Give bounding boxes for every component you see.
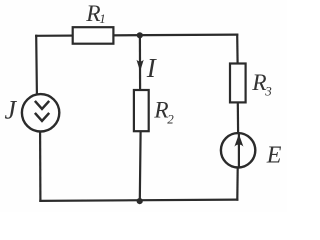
svg-text:J: J (5, 96, 18, 125)
wire right middle (237, 102, 240, 132)
node top junction (137, 32, 143, 38)
svg-text:I: I (146, 53, 158, 83)
wire right upper (236, 35, 239, 64)
svg-text:3: 3 (264, 84, 272, 99)
svg-text:E: E (266, 143, 282, 169)
wire left lower (39, 133, 42, 201)
node bottom junction (137, 198, 143, 204)
svg-text:1: 1 (99, 11, 106, 26)
resistor R2 (134, 90, 149, 131)
source E (221, 133, 255, 167)
wire bottom (40, 200, 237, 201)
current arrow I head (137, 60, 144, 72)
resistor R1 (73, 27, 114, 44)
resistor R3 (230, 64, 246, 103)
current source J chevron upper (35, 101, 49, 109)
wire middle lower (139, 132, 142, 201)
current source J chevron lower (35, 113, 49, 121)
wire right lower (236, 168, 239, 200)
source E arrow shaft (238, 134, 240, 168)
source E arrow head (234, 134, 243, 147)
wire top (36, 35, 237, 36)
wire middle upper (139, 35, 141, 90)
wire left upper (35, 36, 38, 94)
current source J (22, 94, 59, 131)
svg-text:2: 2 (167, 111, 174, 126)
